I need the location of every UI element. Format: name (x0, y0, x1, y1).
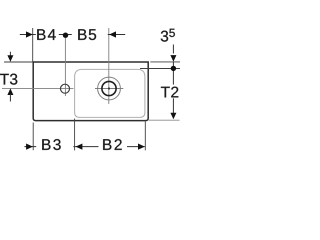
arrow down at top edge (170, 55, 176, 62)
label B2 (103, 139, 122, 150)
right dimension line upper (172, 62, 174, 85)
label B4 (37, 29, 55, 40)
label B4 gap (36, 28, 59, 42)
arrow left (points right) (26, 31, 33, 37)
T3 arrow up (7, 88, 13, 95)
arrow B2 left (points left) (76, 144, 83, 150)
right dimension tail above arrow (172, 45, 174, 54)
arrow B2 right (points right) (138, 144, 145, 150)
bottom extension line bowl right (144, 122, 146, 151)
T3 arrow down (7, 55, 13, 62)
extension line bowl bottom to right (149, 119, 180, 121)
drain inner circle (102, 81, 116, 95)
extension line left of top edge (4, 61, 33, 63)
label T2 (161, 87, 178, 98)
drain centerline vertical (108, 28, 110, 104)
extension line bowl rear to right (140, 68, 180, 70)
bottom extension line bowl left (74, 119, 76, 151)
label 3 (161, 31, 168, 42)
dot at bowl rear (171, 66, 176, 71)
basin outer outline (33, 62, 148, 121)
label B2 gap (99, 137, 128, 151)
dot between B4 and B5 (63, 33, 68, 38)
drain center dot (108, 87, 110, 89)
bottom dimension line (24, 146, 144, 148)
right dimension line lower (172, 98, 174, 113)
label T3 (0, 74, 17, 85)
tap hole centerline vertical (64, 37, 66, 97)
T3 dimension tail above (9, 52, 11, 57)
tap hole centerline horizontal (2, 88, 74, 90)
inner bowl (75, 69, 145, 117)
arrow right (points left) (109, 31, 116, 37)
top dimension line (20, 34, 125, 36)
extension line right of top edge (150, 61, 180, 63)
label 5 superscript (169, 29, 175, 37)
tap hole circle (61, 84, 70, 93)
drain outer circle (98, 77, 121, 100)
drain centerline horizontal (95, 88, 123, 90)
label B3 (42, 139, 60, 150)
label B5 gap (72, 28, 108, 42)
arrow down at bowl front (170, 113, 176, 120)
T3 tail below (9, 94, 11, 102)
bottom extension line left (32, 123, 34, 151)
label B3 gap (36, 137, 73, 151)
arrow bottom-left (points right) (26, 144, 33, 150)
label B5 (78, 29, 96, 40)
extension line top left vertical (32, 28, 34, 62)
